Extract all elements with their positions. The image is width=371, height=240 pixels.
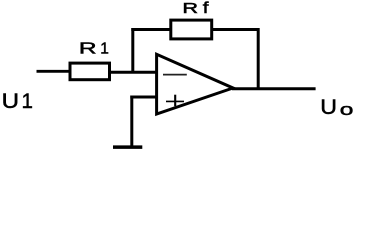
wire: R1 right to op-amp inverting input [110, 71, 157, 74]
ground symbol bar [113, 145, 142, 149]
resistor Rf [171, 20, 212, 39]
svg-text:U: U [2, 88, 19, 112]
svg-text:f: f [203, 0, 210, 17]
svg-text:1: 1 [100, 40, 109, 57]
op-amp U1 triangle [157, 54, 233, 114]
wire: feedback vertical right down to output [257, 28, 260, 89]
op-amp plus input symbol [166, 100, 184, 102]
wire: feedback vertical left (node at inverting input) [131, 28, 134, 74]
svg-text:1: 1 [21, 90, 32, 113]
wire: top feedback right segment from Rf [211, 28, 260, 31]
resistor R1 [70, 63, 110, 80]
label Rf [182, 0, 209, 17]
label Uo (output) [320, 95, 353, 119]
svg-text:R: R [182, 0, 198, 16]
wire: top feedback left segment to Rf [131, 28, 172, 31]
svg-text:o: o [340, 101, 354, 119]
svg-text:U: U [320, 95, 337, 119]
wire: ground vertical [130, 96, 133, 148]
wire: non-inverting input to ground branch [130, 96, 156, 99]
wire: input U1 to R1 left [37, 70, 71, 73]
svg-text:R: R [79, 40, 97, 58]
label R1 [79, 40, 109, 58]
label U1 (input) [2, 88, 33, 113]
wire: op-amp output [232, 87, 316, 90]
op-amp minus input symbol [163, 74, 187, 76]
